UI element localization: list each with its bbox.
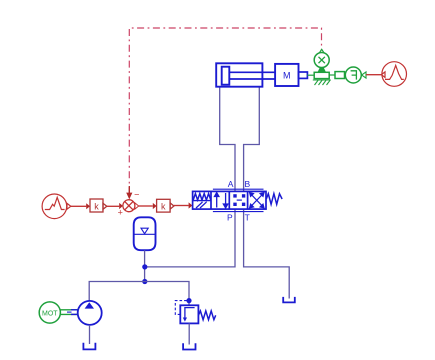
node dot accumulator / pump line — [142, 279, 147, 284]
T line tank — [283, 297, 295, 303]
svg-text:P: P — [227, 212, 233, 222]
node dot relief pilot tap — [186, 298, 191, 303]
valve pilot slashes — [196, 202, 203, 208]
gain K2 — [157, 199, 174, 212]
hydraulic cylinder body — [216, 63, 262, 86]
relief valve pilot line (dashed) — [175, 301, 187, 315]
valve position 1 arrows — [215, 193, 228, 208]
piston rod — [229, 71, 275, 73]
wire K1 to summing junction — [107, 205, 119, 207]
relief valve internal arrow — [183, 308, 195, 322]
svg-text:B: B — [244, 179, 250, 189]
accumulator — [134, 217, 156, 250]
supply line pump to relief valve — [89, 282, 189, 306]
relief valve to tank line — [188, 323, 190, 344]
valve position 3 crossed arrows — [250, 193, 264, 208]
wire K2 to valve — [174, 205, 189, 207]
valve left spring — [193, 194, 211, 200]
wire F source — [366, 74, 381, 76]
position sensor base — [314, 72, 329, 78]
relief valve tank — [183, 343, 195, 349]
hydraulic line valve P to accumulator node — [145, 210, 235, 267]
signal source S1 (spike waveform) — [42, 194, 71, 219]
arrow into F — [362, 72, 366, 78]
pump tank — [83, 343, 95, 350]
link sensor to force block — [329, 74, 335, 76]
valve center position blocked ports — [233, 194, 245, 206]
mass block M — [275, 64, 298, 86]
valve pilot box divider — [193, 200, 211, 202]
ground under sensor — [313, 80, 331, 85]
hydraulic line cylinder left port to valve A — [220, 87, 235, 191]
gain K1 — [90, 199, 107, 212]
feedback signal wire (dash-dot) — [129, 28, 321, 194]
hydraulic line valve T to tank — [244, 210, 290, 299]
cylinder piston — [222, 67, 230, 85]
accumulator gas line — [134, 233, 156, 235]
svg-text:−: − — [134, 190, 139, 200]
sensor neck — [318, 68, 327, 72]
node dot accumulator / P line — [142, 264, 147, 269]
wire S1 to K1 — [71, 205, 86, 207]
relief valve spring — [198, 311, 215, 320]
accumulator drop line — [144, 250, 146, 281]
svg-text:M: M — [283, 71, 291, 81]
svg-text:MOT: MOT — [42, 310, 58, 317]
svg-text:k: k — [94, 201, 99, 211]
summing junction — [123, 200, 135, 212]
force source F — [345, 67, 361, 83]
svg-text:k: k — [161, 201, 166, 211]
pump P1 — [78, 301, 102, 325]
signal source S2 (spike waveform) — [381, 62, 406, 87]
svg-text:+: + — [118, 208, 123, 218]
pump to tank line — [89, 325, 91, 344]
rod end stub — [299, 72, 308, 78]
valve proportional rails — [213, 188, 264, 190]
pump triangle — [85, 302, 94, 308]
accumulator gas triangle — [141, 228, 148, 234]
motor MOT — [39, 302, 60, 323]
hydraulic line cylinder right port to valve B — [244, 87, 260, 191]
wire junction to K2 — [135, 203, 139, 209]
svg-text:A: A — [228, 179, 234, 189]
force block stub — [335, 72, 345, 79]
directional valve V1 body — [193, 191, 266, 209]
link M to position sensor — [307, 74, 314, 76]
svg-text:T: T — [245, 212, 250, 222]
valve right spring — [266, 194, 282, 205]
relief valve RV1 — [180, 305, 198, 323]
position transducer X — [314, 49, 329, 67]
shaft motor-pump — [60, 310, 78, 315]
arrowhead into summing junction — [128, 186, 130, 194]
